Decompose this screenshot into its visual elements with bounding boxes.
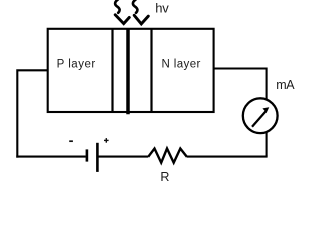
svg-text:R: R — [160, 170, 169, 184]
svg-text:hv: hv — [155, 1, 169, 16]
svg-text:N layer: N layer — [162, 58, 201, 70]
svg-text:P layer: P layer — [57, 58, 96, 70]
svg-text:mA: mA — [276, 78, 295, 92]
